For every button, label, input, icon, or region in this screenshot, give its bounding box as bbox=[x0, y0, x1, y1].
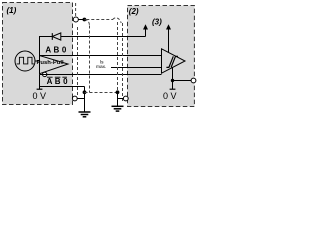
diode D1 bbox=[52, 33, 61, 40]
svg-text:(3): (3) bbox=[152, 17, 162, 26]
svg-text:0 V: 0 V bbox=[163, 91, 177, 101]
svg-text:(1): (1) bbox=[7, 6, 17, 15]
wire right earth vertical bbox=[117, 92, 119, 106]
shield right vertical bbox=[117, 22, 119, 91]
svg-text:A B 0: A B 0 bbox=[47, 77, 69, 86]
terminal right 0V bbox=[123, 96, 128, 101]
load label ls max bbox=[94, 57, 111, 71]
terminal left 0V bbox=[72, 96, 77, 101]
node shield bbox=[83, 18, 87, 22]
wire complementary channels bbox=[40, 74, 162, 76]
driver U1 push-pull bbox=[37, 56, 69, 74]
svg-text:A B 0: A B 0 bbox=[45, 45, 67, 54]
svg-text:Push-Pull: Push-Pull bbox=[37, 60, 65, 66]
encoder box (1) bbox=[3, 3, 73, 105]
label A B 0 inverted bbox=[47, 77, 69, 86]
shield stub above terminal bbox=[75, 3, 77, 17]
ground left bbox=[79, 112, 91, 117]
svg-text:(2): (2) bbox=[129, 7, 139, 16]
shield link dashed bbox=[85, 92, 118, 94]
wire 0V rail encoder bbox=[40, 86, 85, 88]
wire sensor to driver bbox=[35, 60, 40, 62]
cable boundary right bbox=[122, 23, 124, 102]
comparator U2 bbox=[162, 49, 186, 73]
wire channel A B 0 bbox=[40, 55, 162, 57]
wire 0V vertical in encoder bbox=[39, 75, 41, 90]
node right earth junction bbox=[116, 90, 120, 94]
wire supply rail bbox=[39, 36, 52, 38]
wire 0V bend in box2 bbox=[173, 80, 192, 82]
svg-text:max.: max. bbox=[96, 65, 106, 70]
shield left vertical bbox=[89, 26, 91, 93]
wire supply vertical bbox=[39, 37, 41, 56]
shield left corner arc bbox=[84, 20, 89, 26]
wire middle conductor bbox=[95, 67, 162, 69]
node comparator ground bbox=[171, 79, 174, 82]
wire right 0V terminal bbox=[118, 98, 124, 100]
arrow signal 2 bbox=[166, 24, 171, 52]
terminal output right bbox=[191, 78, 196, 83]
wire left 0V terminal bbox=[77, 98, 84, 100]
sensor B1 (pulse generator) bbox=[15, 51, 35, 71]
wire shield terminal to node bbox=[78, 19, 84, 21]
ground right bbox=[112, 106, 124, 111]
inverting bubble bbox=[43, 72, 47, 76]
wire 0V bend down bbox=[84, 87, 86, 113]
shield top line bbox=[86, 19, 113, 21]
wire comparator ground stub bbox=[172, 67, 174, 89]
shield hop arc bbox=[113, 18, 122, 23]
receiver box (2) bbox=[128, 6, 195, 107]
0V rail end bar receiver bbox=[170, 88, 176, 90]
arrow signal 1 bbox=[143, 24, 148, 36]
0V rail end bar encoder bbox=[37, 88, 43, 90]
svg-text:0 V: 0 V bbox=[33, 91, 47, 101]
node left earth junction bbox=[83, 90, 87, 94]
cable boundary left bbox=[77, 27, 79, 96]
terminal shield bbox=[73, 17, 78, 22]
